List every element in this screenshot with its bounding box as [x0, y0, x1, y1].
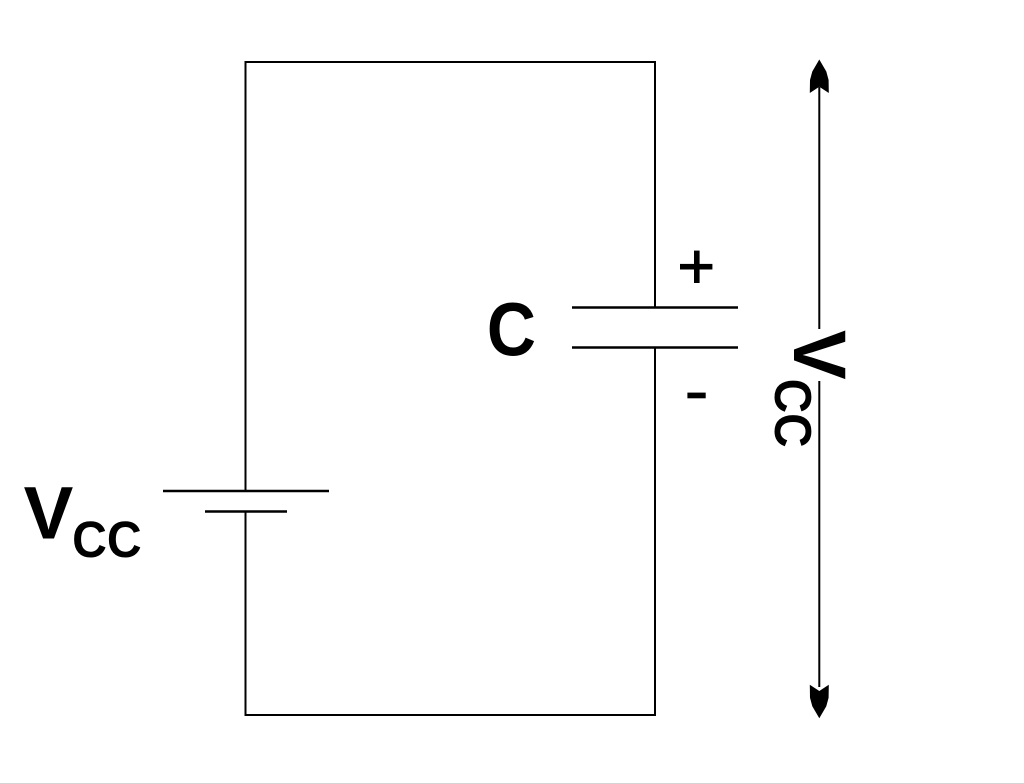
svg-text:CC: CC [763, 379, 821, 448]
svg-text:V: V [778, 330, 861, 380]
svg-text:C: C [487, 288, 536, 372]
svg-text:CC: CC [72, 511, 142, 569]
svg-text:V: V [24, 472, 74, 555]
